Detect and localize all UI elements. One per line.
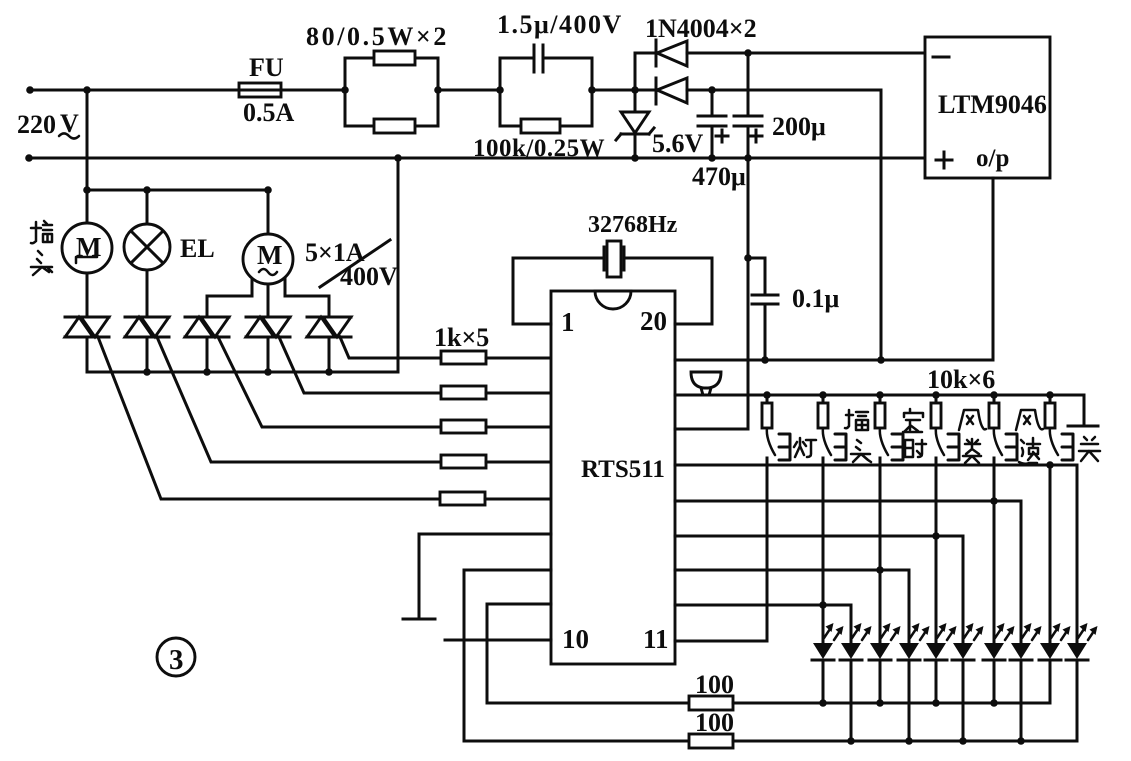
- key switch S1 (light): [767, 428, 790, 460]
- LED D10: [1066, 623, 1098, 741]
- capacitor 200u electrolytic: [734, 53, 762, 429]
- node key4 on row14: [932, 532, 940, 540]
- triac T1: [65, 317, 109, 337]
- wire LTM output drop: [992, 178, 995, 360]
- svg-text:10: 10: [562, 624, 589, 654]
- wire gate T5: [340, 337, 441, 358]
- resistor 1k (pin2): [441, 351, 551, 364]
- wire gate T4: [279, 337, 441, 393]
- wire top AC rail left: [30, 89, 239, 92]
- diode D2 1N4004 (lower): [656, 78, 687, 104]
- label feng (speed upper): [1016, 410, 1043, 430]
- svg-text:11: 11: [643, 624, 669, 654]
- label figure number 3: [157, 638, 195, 676]
- lamp EL: [124, 190, 170, 317]
- label deng (light): [794, 438, 816, 457]
- fuse FU 0.5A: [239, 83, 281, 97]
- wire pin10 stub: [445, 639, 551, 642]
- resistor 10k col4: [931, 395, 941, 428]
- wire pin18 key rail: [675, 395, 1084, 423]
- label ding (timer upper): [903, 409, 923, 432]
- resistor 10k col1: [762, 395, 772, 428]
- node key5 on row15: [990, 497, 998, 505]
- zener diode 5.6V: [616, 112, 654, 158]
- node common rail T4: [264, 368, 272, 376]
- label feng (mode upper): [959, 410, 986, 430]
- ground symbol: [403, 618, 435, 621]
- wire LED return rail B: [464, 740, 689, 743]
- resistor 10k col6: [1045, 395, 1055, 428]
- node railB D8: [1017, 737, 1025, 745]
- wire key col6 down to LED9: [1049, 465, 1052, 643]
- node railA D3: [876, 699, 884, 707]
- node railB D6: [959, 737, 967, 745]
- wire pin15 key row: [675, 501, 1021, 643]
- wire key col2 down to LED1: [822, 458, 825, 643]
- node D2/470u junction: [708, 86, 716, 94]
- resistor 1k (pin5): [441, 455, 551, 468]
- wire LED return rail A: [487, 702, 689, 705]
- node 0.1u tap: [744, 254, 752, 262]
- wire gate T2: [157, 337, 441, 462]
- label guan (off): [1079, 437, 1100, 461]
- wire key col3 down to LED3: [879, 458, 882, 643]
- label shi (timer lower): [905, 440, 926, 457]
- svg-text:RTS511: RTS511: [581, 456, 665, 483]
- wire C-box to diode node: [592, 89, 656, 92]
- node: C-box right: [588, 86, 596, 94]
- node common rail T5: [325, 368, 333, 376]
- svg-text:10k×6: 10k×6: [927, 365, 995, 394]
- node key rail col1: [763, 391, 771, 399]
- svg-text:220: 220: [17, 110, 56, 139]
- svg-text:FU: FU: [249, 53, 284, 82]
- node triac return on neutral: [394, 154, 402, 162]
- wire crystal to pin1: [513, 258, 604, 324]
- svg-text:1.5μ/400V: 1.5μ/400V: [497, 10, 623, 39]
- node D1/200u junction: [744, 49, 752, 57]
- resistor 10k col3: [875, 395, 885, 428]
- key switch S4 (mode): [936, 428, 959, 460]
- node key2 on row12: [819, 601, 827, 609]
- wire pin8 row to bottom rail B: [464, 570, 551, 741]
- node railB D4: [905, 737, 913, 745]
- node loads rail M2: [264, 186, 272, 194]
- node key rail col4: [932, 391, 940, 399]
- diode D1 1N4004 (top): [656, 40, 687, 66]
- node: R-box left: [341, 86, 349, 94]
- node railB D2: [847, 737, 855, 745]
- node key rail col2: [819, 391, 827, 399]
- svg-text:1: 1: [561, 307, 575, 337]
- wire pin13 key row: [675, 570, 909, 643]
- wire ground row pin7: [419, 534, 551, 617]
- key switch S2 (oscillate): [823, 428, 846, 460]
- node key6 on row16: [1046, 461, 1054, 469]
- node loads rail M1: [83, 186, 91, 194]
- resistor 10k col2: [818, 395, 828, 428]
- LED D3: [869, 623, 901, 703]
- crystal 32768Hz: [604, 241, 624, 277]
- LED D7: [983, 623, 1015, 703]
- resistor 1k (pin6): [440, 492, 551, 505]
- svg-text:M: M: [257, 240, 282, 270]
- svg-text:o/p: o/p: [976, 145, 1009, 172]
- label 220V source: [17, 109, 79, 139]
- resistor 10k col5: [989, 395, 999, 428]
- wire pin17 VSS row: [675, 428, 748, 431]
- node key3 on row13: [876, 566, 884, 574]
- triac T5: [307, 317, 351, 337]
- label oscillation motor (yao tou): [31, 221, 52, 275]
- wire gate T1: [98, 337, 440, 499]
- chassis bar of key rail: [1068, 425, 1098, 428]
- svg-text:EL: EL: [180, 234, 215, 263]
- node railA D7: [990, 699, 998, 707]
- wire R-box to C-box: [438, 89, 500, 92]
- wire pin19 VDD row: [675, 359, 993, 362]
- svg-text:0.1μ: 0.1μ: [792, 284, 840, 313]
- node key rail col5: [990, 391, 998, 399]
- node 200u bottom on neutral rail: [744, 154, 752, 162]
- LED D6: [952, 623, 984, 741]
- wire to diode D1: [635, 52, 656, 55]
- regulator module LTM9046: [925, 37, 1050, 178]
- resistor 100 (rail A): [689, 696, 733, 710]
- svg-text:1N4004×2: 1N4004×2: [645, 14, 757, 43]
- wire pin16 key row: [675, 465, 1077, 643]
- node loads rail EL: [143, 186, 151, 194]
- node key rail col3: [876, 391, 884, 399]
- label lei (mode lower): [963, 439, 981, 463]
- resistor pair 80/0.5W x2 parallel box: [345, 51, 438, 133]
- node N: 220V neutral terminal: [25, 154, 33, 162]
- svg-text:100: 100: [695, 670, 734, 699]
- svg-text:80/0.5W×2: 80/0.5W×2: [306, 22, 449, 51]
- triac T4: [246, 317, 290, 337]
- capacitor 0.1u: [748, 258, 778, 360]
- label su (speed lower): [1019, 438, 1040, 464]
- wire gate T3: [218, 337, 441, 427]
- svg-text:3: 3: [169, 644, 184, 676]
- key switch S6 (off): [1050, 428, 1073, 460]
- node: R-box right: [434, 86, 442, 94]
- svg-text:470μ: 470μ: [692, 162, 746, 191]
- piezo sounder: [691, 372, 721, 395]
- wire D2 anode rail: [687, 89, 881, 92]
- resistor 1k (pin4): [441, 420, 551, 433]
- wire LED return rail A right: [733, 702, 1050, 705]
- wire key col4 down to LED5: [935, 458, 938, 643]
- wire loads rail: [87, 189, 268, 192]
- wire fuse to R-box: [281, 89, 345, 92]
- motor M1 oscillation: [62, 190, 112, 317]
- node common rail T2: [143, 368, 151, 376]
- node live feeder tap: [83, 86, 91, 94]
- LED D1: [812, 623, 844, 703]
- svg-text:400V: 400V: [340, 262, 398, 291]
- LED D4: [898, 623, 930, 741]
- wire pin12 key row: [675, 605, 851, 643]
- capacitor 470u electrolytic: [698, 90, 728, 158]
- LED D8: [1010, 623, 1042, 741]
- svg-text:200μ: 200μ: [772, 112, 826, 141]
- label tou (oscillate lower): [851, 440, 871, 462]
- wire bottom AC rail: [29, 157, 925, 160]
- wire M2 left tap to triac3: [207, 279, 252, 317]
- wire LED return rail B right: [733, 740, 1077, 743]
- LED D5: [925, 623, 957, 703]
- svg-text:5.6V: 5.6V: [652, 129, 704, 158]
- motor M2 fan: [243, 190, 293, 317]
- node: C-box left: [496, 86, 504, 94]
- node common rail T3: [203, 368, 211, 376]
- node L: 220V live terminal: [26, 86, 34, 94]
- IC U1 RTS511: [551, 291, 675, 664]
- wire key col1 down to pin11 row: [766, 458, 769, 641]
- wire live feeder drop: [86, 90, 89, 190]
- svg-text:LTM9046: LTM9046: [938, 90, 1047, 119]
- wire triac common rail: [87, 158, 398, 372]
- wire pin11 key row: [675, 458, 767, 641]
- wire pin9 row to bottom rail A: [487, 604, 551, 703]
- node 0.1u on VDD row: [761, 356, 769, 364]
- wire crystal to pin20: [624, 258, 712, 324]
- wire pin14 key row: [675, 536, 963, 643]
- resistor 100 (rail B): [689, 734, 733, 748]
- node rectifier feed on VDD row: [877, 356, 885, 364]
- wire M2 right tap to triac5: [285, 279, 329, 317]
- LED D9: [1039, 623, 1071, 703]
- svg-text:0.5A: 0.5A: [243, 98, 295, 127]
- node AC junction: [631, 86, 639, 94]
- wire AC node vertical: [634, 53, 637, 112]
- svg-text:32768Hz: 32768Hz: [588, 212, 678, 238]
- svg-text:100: 100: [695, 708, 734, 737]
- triac T2: [125, 317, 169, 337]
- label 5x1A / 400V: [305, 238, 398, 291]
- node railA D1: [819, 699, 827, 707]
- node zener on neutral: [631, 154, 639, 162]
- LED D2: [840, 623, 872, 741]
- wire +V drop to pin19 row: [880, 90, 883, 360]
- key switch S3 (timer): [880, 428, 903, 460]
- svg-text:20: 20: [640, 306, 667, 336]
- triac T3: [185, 317, 229, 337]
- node railA D5: [932, 699, 940, 707]
- wire key col5 down to LED7: [993, 458, 996, 643]
- capacitor 1.5u/400V with resistor 100k/0.25W parallel box: [500, 45, 592, 133]
- svg-text:1k×5: 1k×5: [434, 323, 489, 352]
- node 470u on neutral: [708, 154, 716, 162]
- label bo (oscillate upper): [845, 410, 868, 430]
- key switch S5 (speed): [994, 428, 1017, 460]
- wire D1 anode to LTM minus: [687, 52, 925, 55]
- node key rail col6: [1046, 391, 1054, 399]
- resistor 1k (pin3): [441, 386, 551, 399]
- wire triac bottoms to common rail: [87, 337, 329, 372]
